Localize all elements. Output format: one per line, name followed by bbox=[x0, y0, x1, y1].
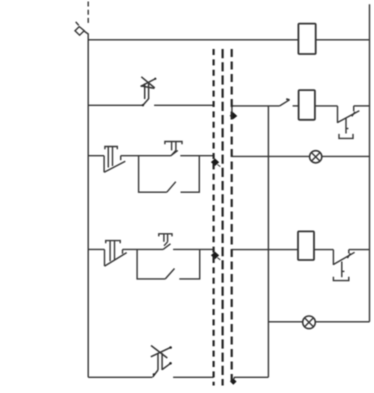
contact KM1-b (latch NO) bbox=[167, 182, 176, 193]
row3 left wire bbox=[88, 155, 104, 157]
stop button SB1 (NC) bbox=[104, 147, 125, 173]
contact KM1-a (NO) bbox=[280, 100, 290, 106]
bottom wire (right of cable) bbox=[234, 376, 268, 378]
coil KM1 bbox=[299, 90, 315, 120]
wire SQ2 to right bus bbox=[349, 249, 370, 251]
top wire row A bbox=[88, 39, 369, 41]
latch branch row3 bbox=[139, 156, 167, 193]
contact KM2-b (latch NO) bbox=[165, 269, 174, 279]
contact KS2 (X-head switch, bottom) bbox=[151, 346, 172, 378]
row4 left wire bbox=[88, 248, 104, 250]
right bus wire bbox=[369, 4, 371, 322]
bottom wire (mid of cable) bbox=[173, 376, 214, 378]
contact KS1 (X-head switch, row2) bbox=[141, 77, 157, 107]
lamp HL2 bbox=[303, 316, 316, 329]
coil KA (top) bbox=[298, 24, 315, 54]
mid vertical wire bbox=[267, 106, 269, 378]
row2 right wire bbox=[232, 106, 280, 112]
lamp row2 wire bbox=[268, 321, 369, 323]
limit switch SQ1 bbox=[337, 106, 359, 138]
cable dashed line W1 bbox=[213, 49, 215, 386]
wire coil KM1 to SQ1 bbox=[316, 105, 338, 107]
wire SQ1 to right bus bbox=[354, 105, 370, 107]
cable dashed line W2 bbox=[222, 49, 224, 386]
arrow into cable row3 bbox=[211, 158, 219, 166]
bottom wire (left of cable) bbox=[88, 376, 152, 378]
dashed lead-in at top of left bus bbox=[87, 2, 89, 26]
latch branch row4 bbox=[137, 249, 165, 279]
arrow into cable row4 bbox=[211, 252, 219, 260]
plug/disconnect symbol QS bbox=[75, 22, 88, 35]
arrow into cable row2 bbox=[230, 112, 238, 119]
coil KM2 bbox=[298, 231, 314, 260]
row2 left wire bbox=[88, 104, 142, 106]
cable dashed line W3 bbox=[231, 49, 233, 386]
start button SB3 (NO) bbox=[165, 142, 182, 156]
wire coil KM2 to SQ2 bbox=[314, 249, 333, 251]
lamp HL1 bbox=[310, 151, 322, 163]
start button SB4 (NO) bbox=[159, 234, 172, 250]
stop button SB2 (NC) bbox=[105, 241, 127, 267]
lamp row1 wire bbox=[232, 155, 370, 157]
row4 right wire bbox=[232, 249, 298, 251]
arrow into cable bottom row bbox=[230, 379, 237, 385]
limit switch SQ2 bbox=[333, 250, 354, 281]
left bus wire bbox=[87, 33, 89, 377]
